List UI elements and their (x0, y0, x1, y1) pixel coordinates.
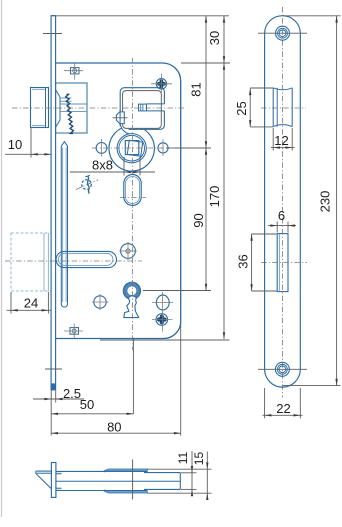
svg-text:22: 22 (276, 401, 290, 416)
svg-text:230: 230 (317, 191, 332, 213)
svg-text:25: 25 (234, 101, 249, 115)
svg-text:12: 12 (274, 133, 288, 148)
svg-text:24: 24 (24, 295, 38, 310)
svg-text:81: 81 (189, 82, 204, 96)
svg-text:50: 50 (80, 397, 94, 412)
svg-text:90: 90 (191, 213, 206, 227)
svg-text:36: 36 (235, 254, 250, 268)
svg-text:10: 10 (8, 137, 22, 152)
svg-text:11: 11 (176, 451, 190, 464)
svg-text:30: 30 (207, 31, 222, 45)
svg-text:80: 80 (107, 420, 121, 435)
svg-text:2.5: 2.5 (63, 386, 81, 401)
svg-text:6: 6 (278, 208, 285, 223)
svg-text:170: 170 (207, 186, 222, 208)
svg-text:15: 15 (192, 452, 206, 466)
svg-text:8x8: 8x8 (92, 158, 113, 173)
